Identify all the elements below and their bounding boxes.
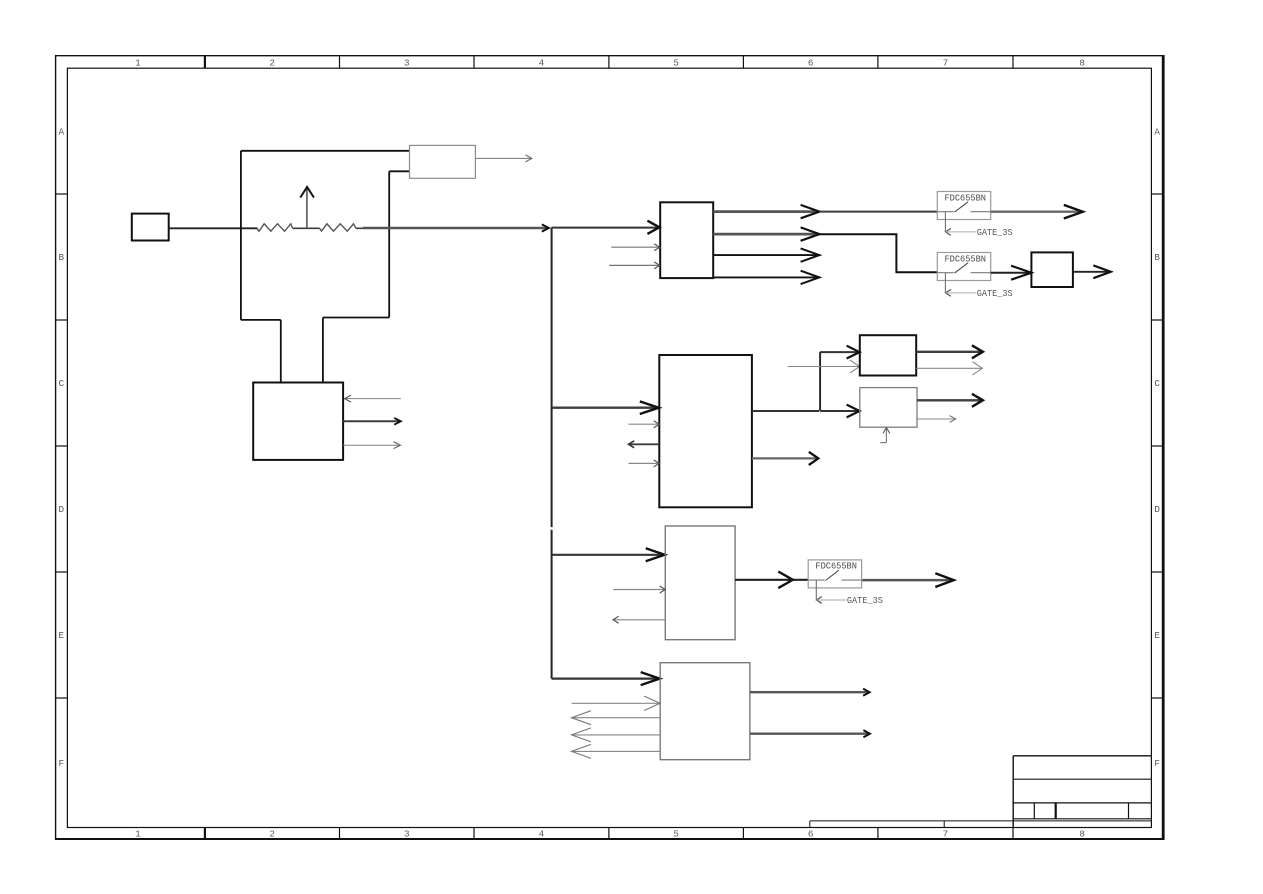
svg-text:2: 2 [269, 58, 275, 69]
svg-text:2: 2 [269, 828, 275, 839]
svg-text:C: C [1154, 378, 1160, 389]
svg-text:FDC655BN: FDC655BN [945, 254, 987, 264]
svg-text:7: 7 [943, 828, 949, 839]
svg-text:5: 5 [673, 828, 679, 839]
svg-text:7: 7 [943, 58, 949, 69]
svg-text:D: D [59, 504, 65, 515]
svg-text:GATE_3S: GATE_3S [977, 228, 1013, 238]
svg-text:6: 6 [808, 58, 814, 69]
svg-text:FDC655BN: FDC655BN [815, 562, 857, 572]
svg-text:1: 1 [135, 58, 141, 69]
svg-text:A: A [1154, 126, 1160, 137]
svg-text:A: A [59, 126, 65, 137]
svg-text:B: B [59, 252, 65, 263]
svg-text:C: C [59, 378, 65, 389]
svg-text:6: 6 [808, 828, 814, 839]
svg-text:8: 8 [1079, 828, 1085, 839]
svg-text:4: 4 [539, 58, 545, 69]
svg-text:F: F [1154, 758, 1160, 769]
svg-text:FDC655BN: FDC655BN [945, 193, 987, 203]
svg-text:8: 8 [1079, 58, 1085, 69]
svg-text:D: D [1154, 504, 1160, 515]
svg-text:F: F [59, 758, 65, 769]
svg-text:B: B [1154, 252, 1160, 263]
svg-text:4: 4 [539, 828, 545, 839]
svg-text:5: 5 [673, 58, 679, 69]
svg-text:GATE_3S: GATE_3S [977, 289, 1013, 299]
svg-text:3: 3 [404, 58, 410, 69]
svg-text:1: 1 [135, 828, 141, 839]
svg-text:E: E [1154, 630, 1160, 641]
svg-text:3: 3 [404, 828, 410, 839]
svg-text:E: E [59, 630, 65, 641]
svg-text:GATE_3S: GATE_3S [847, 596, 883, 606]
